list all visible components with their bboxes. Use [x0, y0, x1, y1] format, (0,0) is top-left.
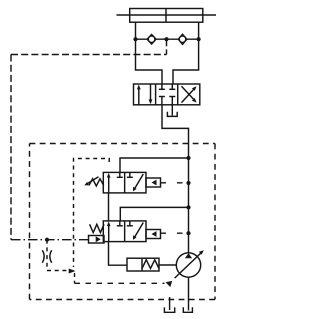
- node P junction 1: [186, 156, 190, 160]
- enclosure (power unit boundary, dashed): [30, 144, 216, 300]
- orifice branch (dashed): [47, 240, 75, 284]
- wire check-valve bridge: [136, 38, 199, 40]
- pump P1 (variable displacement): [176, 253, 200, 277]
- V2 blocked port T left: [119, 221, 121, 226]
- DCV centre box blocked port T (bottom left): [161, 97, 163, 105]
- V1 adjustable spring: [89, 179, 104, 186]
- wire V2 bottom to control cylinder: [109, 242, 128, 266]
- wire branch to compensator top: [120, 207, 188, 221]
- arrow into compensator box: [69, 269, 76, 274]
- wire A-port drop from cylinder: [136, 22, 163, 84]
- wire branch to relief valve top: [120, 158, 189, 172]
- node A (cylinder left line junction): [133, 37, 137, 41]
- V2 blocked port T right: [129, 221, 131, 226]
- cylinder piston: [165, 9, 167, 23]
- wire control cylinder to pump: [159, 264, 176, 266]
- DCV left box up arrow: [138, 87, 140, 105]
- DCV centre box blocked port T (top right): [171, 84, 173, 89]
- V1 blocked port T left: [119, 172, 121, 177]
- case drain stem: [169, 297, 171, 310]
- load sensing chain line to compensator pilot: [11, 239, 89, 241]
- wire V1 bottom to V2 top: [108, 193, 110, 221]
- DCV centre box blocked port T (bottom right): [171, 97, 173, 105]
- node P junction 4: [186, 231, 190, 235]
- V2 right box throttle arrow: [134, 223, 143, 238]
- node pilot junction on sensing line: [45, 238, 49, 242]
- control cylinder spring: [142, 260, 159, 269]
- V1 blocked port T right: [129, 172, 131, 177]
- node pilot mid junction: [164, 37, 168, 41]
- V1 pilot box: [146, 178, 161, 187]
- wire B-port drop from cylinder: [173, 22, 199, 84]
- V2 left pilot box: [89, 236, 105, 244]
- node P junction 2: [186, 181, 190, 185]
- V1 left box up arrow: [108, 175, 110, 193]
- compensator valve V2 body: [103, 221, 146, 242]
- tank T1 (drain): [164, 307, 174, 312]
- tank T2 under pump: [183, 307, 192, 312]
- DCV centre box blocked port T (top left): [161, 84, 163, 89]
- cylinder body: [130, 9, 203, 23]
- node B (cylinder right line junction): [197, 37, 201, 41]
- directional valve body (4/3 DCV): [134, 84, 200, 105]
- relief valve V1 body: [103, 172, 146, 193]
- check valve CV2: [178, 34, 186, 44]
- wire DCV T-port to tank: [171, 105, 173, 116]
- V2 spring: [90, 224, 104, 232]
- orifice (restrictor): [42, 250, 51, 262]
- DCV right box crossed arrow 2: [182, 86, 196, 101]
- tank under DCV: [167, 112, 177, 117]
- wire P-line from DCV to pump: [162, 105, 189, 253]
- arrow onto pump (actuation): [166, 281, 173, 287]
- cylinder rod: [117, 14, 217, 16]
- V1 right box throttle arrow: [134, 174, 143, 189]
- pump control cylinder with spring: [127, 258, 159, 271]
- DCV right box crossed arrow 1: [182, 88, 196, 103]
- pilot line from between check valves (dashed): [11, 39, 167, 240]
- DCV left box down arrow: [150, 84, 152, 102]
- V1 pilot dashed line: [161, 182, 189, 184]
- node P junction 3: [186, 205, 190, 209]
- wire pump suction to tank: [188, 277, 190, 310]
- V2 right pilot box: [146, 230, 161, 239]
- check valve CV1: [147, 34, 156, 44]
- V2 pilot dashed line: [161, 232, 189, 234]
- inner dashed box around valves: [74, 159, 110, 268]
- V2 left box up arrow: [108, 223, 110, 242]
